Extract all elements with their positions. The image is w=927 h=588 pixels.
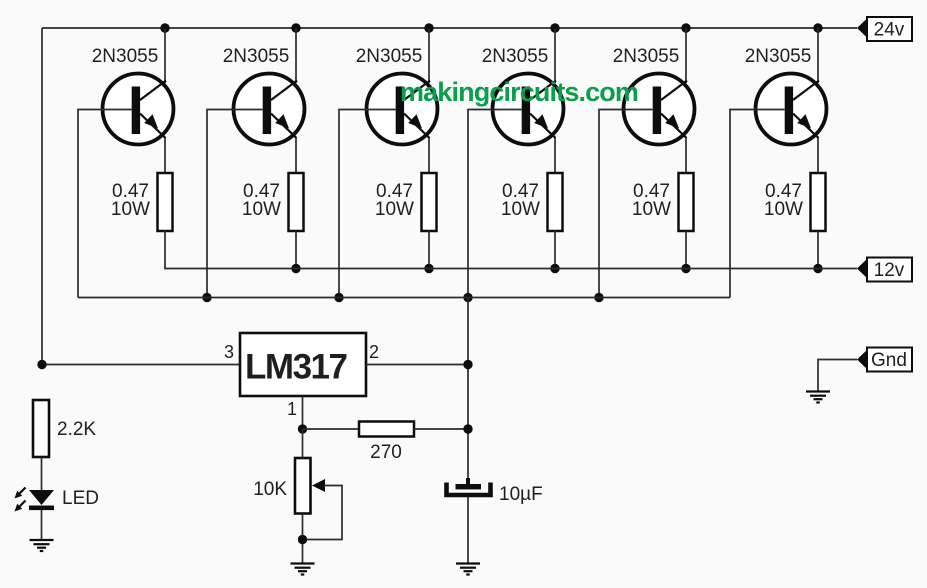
wire cap bottom — [467, 497, 469, 564]
node collector junction Q4 on 24v bus — [550, 23, 559, 32]
wire base Q2 — [207, 110, 263, 298]
wire emitter Q5 — [685, 138, 687, 174]
wire base Q3 — [339, 110, 396, 298]
wire 24v top bus — [42, 27, 857, 29]
wire emitter Q1 — [164, 138, 166, 174]
wire base Q5 — [599, 110, 653, 298]
wire R7 to cap node — [414, 428, 468, 430]
node base junction Q3 on base bus — [334, 293, 343, 302]
ground under cap — [456, 564, 480, 575]
terminal 24v — [857, 17, 912, 41]
wire emitter Q3 — [428, 138, 430, 174]
node collector junction Q5 on 24v bus — [681, 23, 690, 32]
transistor Q4 2N3055 — [493, 74, 564, 145]
ground under LED — [30, 540, 54, 551]
svg-text:10W: 10W — [111, 199, 150, 220]
node R5 junction on 12v bus — [681, 264, 690, 273]
resistor R3 0.47 10W — [422, 173, 437, 231]
transistor Q5 2N3055 — [624, 74, 695, 145]
node base junction Q5 on base bus — [594, 293, 603, 302]
transistor Q6 2N3055 — [756, 74, 827, 145]
ground at Gnd terminal — [806, 392, 830, 403]
svg-text:2N3055: 2N3055 — [745, 46, 812, 67]
svg-text:10W: 10W — [632, 199, 671, 220]
svg-text:2N3055: 2N3055 — [356, 46, 423, 67]
node junction 270 / cap vertical — [463, 424, 472, 433]
terminal 12v — [857, 258, 912, 282]
svg-text:12v: 12v — [874, 260, 905, 281]
transistor Q3 2N3055 — [367, 74, 438, 145]
svg-text:2N3055: 2N3055 — [613, 46, 680, 67]
wire pot bottom — [302, 514, 304, 564]
wire base bus — [78, 297, 730, 299]
svg-text:makingcircuits.com: makingcircuits.com — [400, 77, 638, 107]
wire R6 bottom to 12v bus — [817, 231, 819, 269]
potentiometer VR1 10K — [295, 458, 342, 540]
capacitor C1 10uF — [447, 478, 491, 495]
svg-text:2.2K: 2.2K — [57, 419, 96, 440]
wire Gnd terminal to ground — [818, 360, 857, 392]
wire emitter Q4 — [554, 138, 556, 174]
wire collector Q4 — [554, 28, 556, 83]
wire emitter Q6 — [817, 138, 819, 174]
node base junction Q2 on base bus — [202, 293, 211, 302]
wire collector Q3 — [428, 28, 430, 83]
node collector junction Q3 on 24v bus — [424, 23, 433, 32]
transistor Q1 2N3055 — [103, 74, 174, 145]
svg-text:1: 1 — [287, 399, 297, 419]
node R6 junction on 12v bus — [813, 264, 822, 273]
svg-text:2: 2 — [369, 342, 379, 362]
svg-text:10W: 10W — [375, 199, 414, 220]
wire 12v emitter bus — [164, 268, 857, 270]
svg-text:LED: LED — [62, 488, 99, 509]
wire base Q1 — [78, 110, 132, 298]
svg-text:10W: 10W — [764, 199, 803, 220]
resistor R4 0.47 10W — [548, 173, 563, 231]
wire pin1 node down to pot — [302, 429, 304, 458]
wire LM317 pin2 output — [366, 364, 468, 366]
svg-text:270: 270 — [370, 442, 402, 463]
wire R1 bottom to 12v bus — [164, 231, 166, 269]
svg-text:24v: 24v — [874, 20, 905, 41]
wire base Q4 — [468, 110, 522, 298]
wire collector Q5 — [685, 28, 687, 83]
wire LED to ground — [41, 510, 43, 540]
wire LM317 pin3 input from left rail — [42, 364, 240, 366]
wire R2 bottom to 12v bus — [295, 231, 297, 269]
svg-text:LM317: LM317 — [245, 348, 348, 387]
terminal Gnd — [857, 348, 912, 372]
svg-text:2N3055: 2N3055 — [92, 46, 159, 67]
svg-text:10µF: 10µF — [499, 484, 543, 505]
svg-text:10W: 10W — [242, 199, 281, 220]
transistor Q2 2N3055 — [234, 74, 305, 145]
wire collector Q6 — [817, 28, 819, 83]
wire LM317 pin1 adjust — [302, 396, 304, 429]
resistor R7 270 — [359, 422, 414, 437]
node collector junction Q6 on 24v bus — [813, 23, 822, 32]
node R2 junction on 12v bus — [291, 264, 300, 273]
wire R4 bottom to 12v bus — [554, 231, 556, 269]
ground under pot — [291, 564, 315, 575]
node junction pin1 / 270 / pot — [298, 424, 307, 433]
svg-text:10K: 10K — [253, 479, 287, 500]
svg-text:Gnd: Gnd — [871, 350, 907, 371]
wire R5 bottom to 12v bus — [685, 231, 687, 269]
wire R3 bottom to 12v bus — [428, 231, 430, 269]
svg-text:2N3055: 2N3055 — [223, 46, 290, 67]
wire base Q6 — [730, 110, 785, 298]
node collector junction Q2 on 24v bus — [291, 23, 300, 32]
svg-text:3: 3 — [224, 342, 234, 362]
wire pin1 to R7 — [303, 428, 360, 430]
node base junction Q4 on base bus — [463, 293, 472, 302]
wire base-bus drop to pin2 / cap — [467, 298, 469, 485]
resistor R1 0.47 10W — [158, 173, 173, 231]
wire left vertical rail — [41, 28, 43, 365]
node junction left rail / pin3 — [37, 360, 46, 369]
LED D1 — [15, 488, 55, 512]
node R3 junction on 12v bus — [424, 264, 433, 273]
node R4 junction on 12v bus — [550, 264, 559, 273]
resistor R6 0.47 10W — [811, 173, 826, 231]
svg-text:2N3055: 2N3055 — [482, 46, 549, 67]
wire emitter Q2 — [295, 138, 297, 174]
node junction pin2 / vertical — [463, 360, 472, 369]
node collector junction Q1 on 24v bus — [160, 23, 169, 32]
resistor R5 0.47 10W — [679, 173, 694, 231]
svg-text:10W: 10W — [501, 199, 540, 220]
wire collector Q1 — [164, 28, 166, 83]
wire collector Q2 — [295, 28, 297, 83]
resistor R2 0.47 10W — [289, 173, 304, 231]
wire 2.2K to LED — [41, 457, 43, 490]
op-amp U1 LM317 regulator — [240, 333, 366, 396]
resistor R8 2.2K — [33, 400, 49, 457]
node junction pot wiper / bottom — [298, 535, 307, 544]
